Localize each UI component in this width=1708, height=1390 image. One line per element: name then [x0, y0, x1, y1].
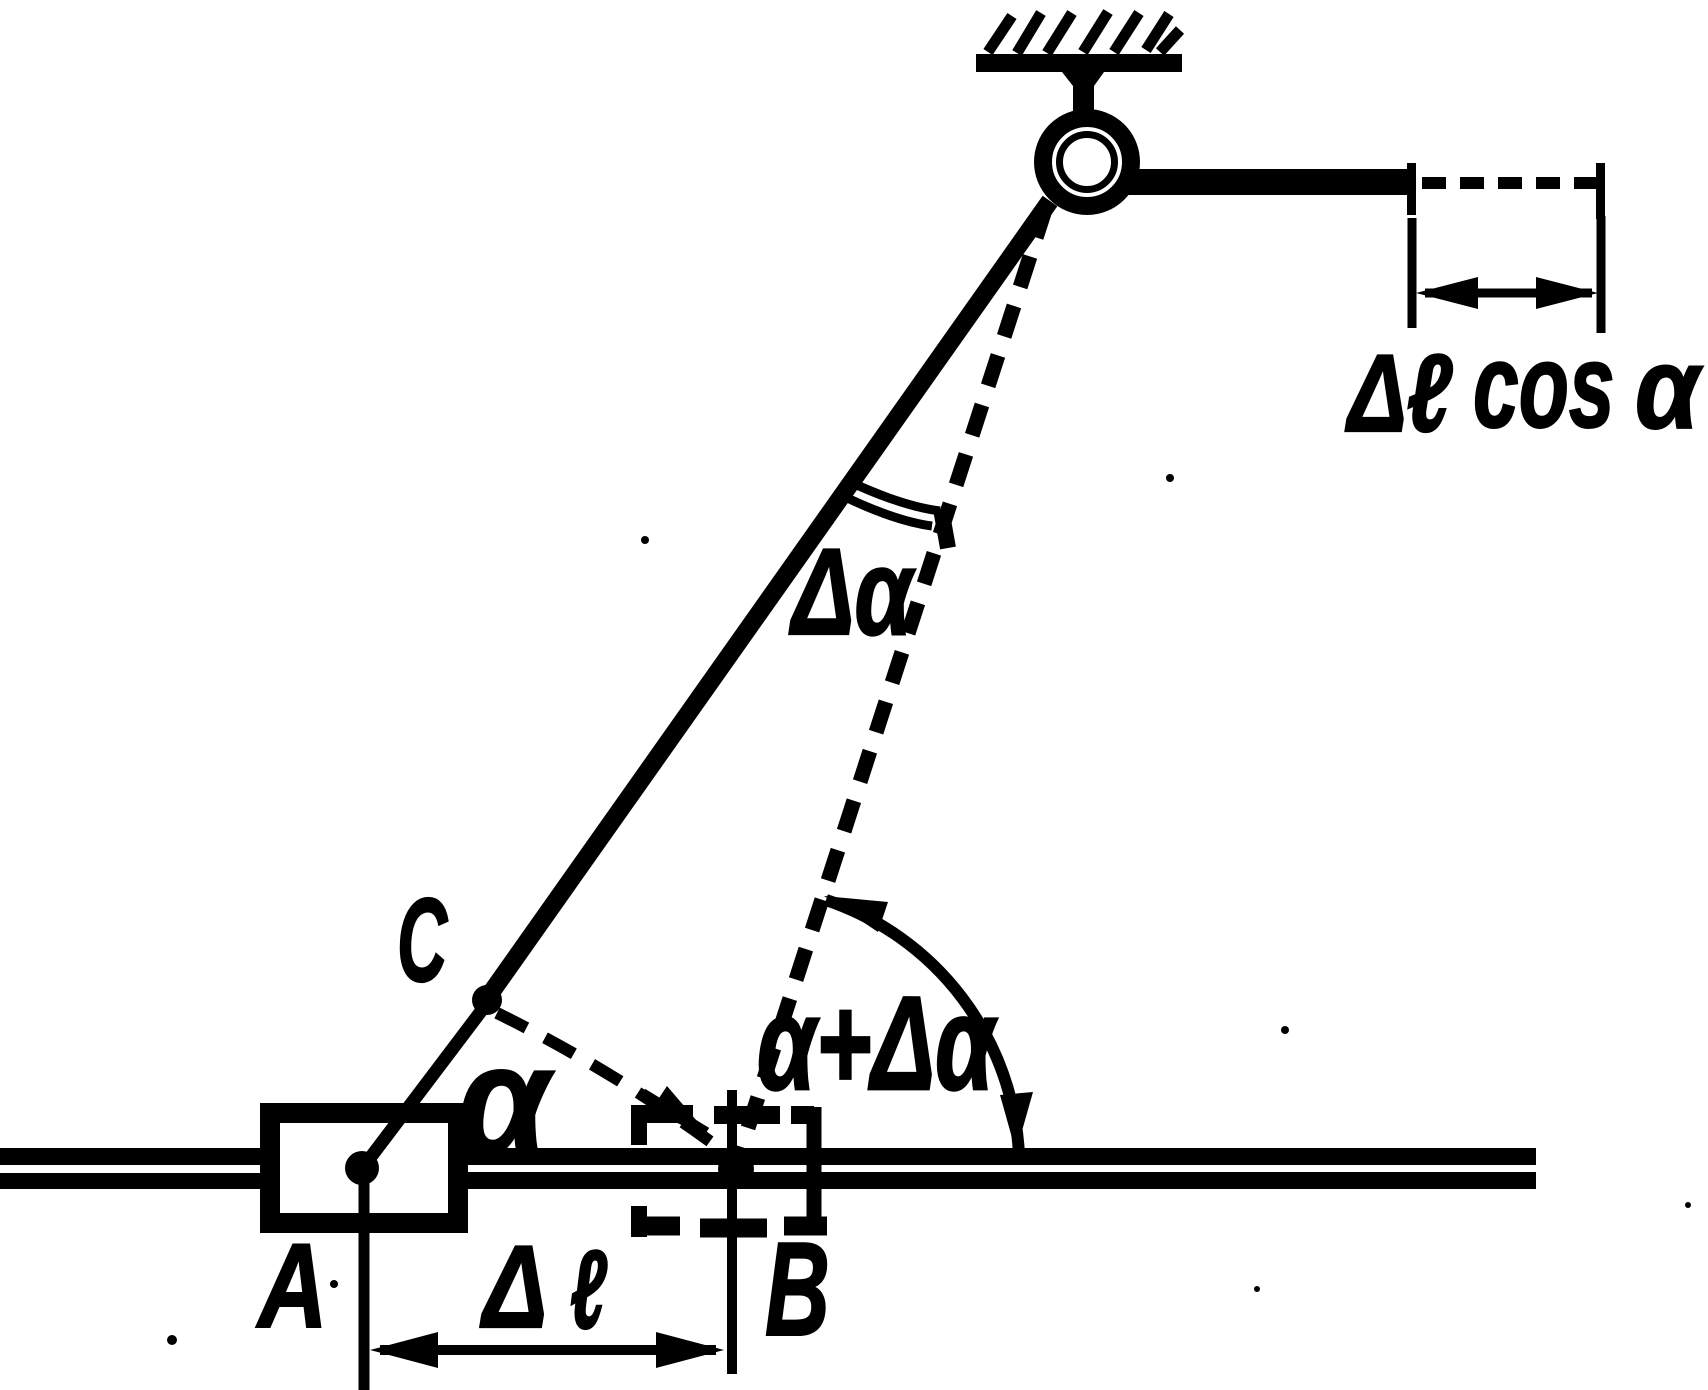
- left extension line of top dimension: [1408, 218, 1417, 328]
- slider block A: [270, 1113, 458, 1223]
- svg-text:Δα: Δα: [789, 525, 917, 661]
- dashed extension of bar: [1422, 177, 1598, 189]
- angle Δα double arc: [839, 480, 948, 548]
- dashed rod (displaced position) from pin to B: [737, 207, 1046, 1162]
- angle α dashed arc with arrow: [497, 1013, 730, 1156]
- node C blob: [472, 985, 502, 1015]
- rail right segment: [468, 1148, 1536, 1189]
- horizontal bar from pin: [1124, 169, 1412, 195]
- ceiling hatching: [988, 12, 1180, 53]
- pin ring O: [1043, 118, 1131, 206]
- svg-text:A: A: [255, 1220, 327, 1354]
- svg-text:α+Δα: α+Δα: [757, 969, 998, 1117]
- pivot dot at B: [718, 1151, 754, 1187]
- rod segment C to A inside block: [364, 1002, 488, 1166]
- right extension line of top dimension: [1597, 216, 1606, 333]
- svg-text:Δℓ: Δℓ: [1344, 333, 1452, 456]
- dashed slider block B: [632, 1105, 827, 1237]
- pivot dot at A: [345, 1151, 379, 1185]
- top dimension arrow Δl cos α: [1416, 277, 1598, 309]
- speck dots: [167, 474, 1691, 1345]
- extension line at B: [727, 1090, 737, 1374]
- bottom dimension arrow Δl: [370, 1332, 724, 1368]
- extension line at A: [359, 1183, 370, 1390]
- svg-text:C: C: [397, 873, 448, 1006]
- svg-text:Δ: Δ: [479, 1221, 547, 1352]
- big arc α+Δα with arrows: [824, 896, 1033, 1155]
- support stem: [1062, 72, 1104, 113]
- svg-text:α: α: [1635, 324, 1704, 454]
- right tick: [1596, 163, 1605, 219]
- rod (solid) from pin to C: [483, 201, 1050, 1004]
- rail left segment: [0, 1148, 262, 1189]
- ceiling line: [976, 54, 1182, 72]
- tick at bar end: [1407, 163, 1416, 215]
- svg-text:cos: cos: [1473, 318, 1615, 452]
- svg-text:B: B: [765, 1215, 830, 1364]
- svg-text:ℓ: ℓ: [570, 1227, 607, 1352]
